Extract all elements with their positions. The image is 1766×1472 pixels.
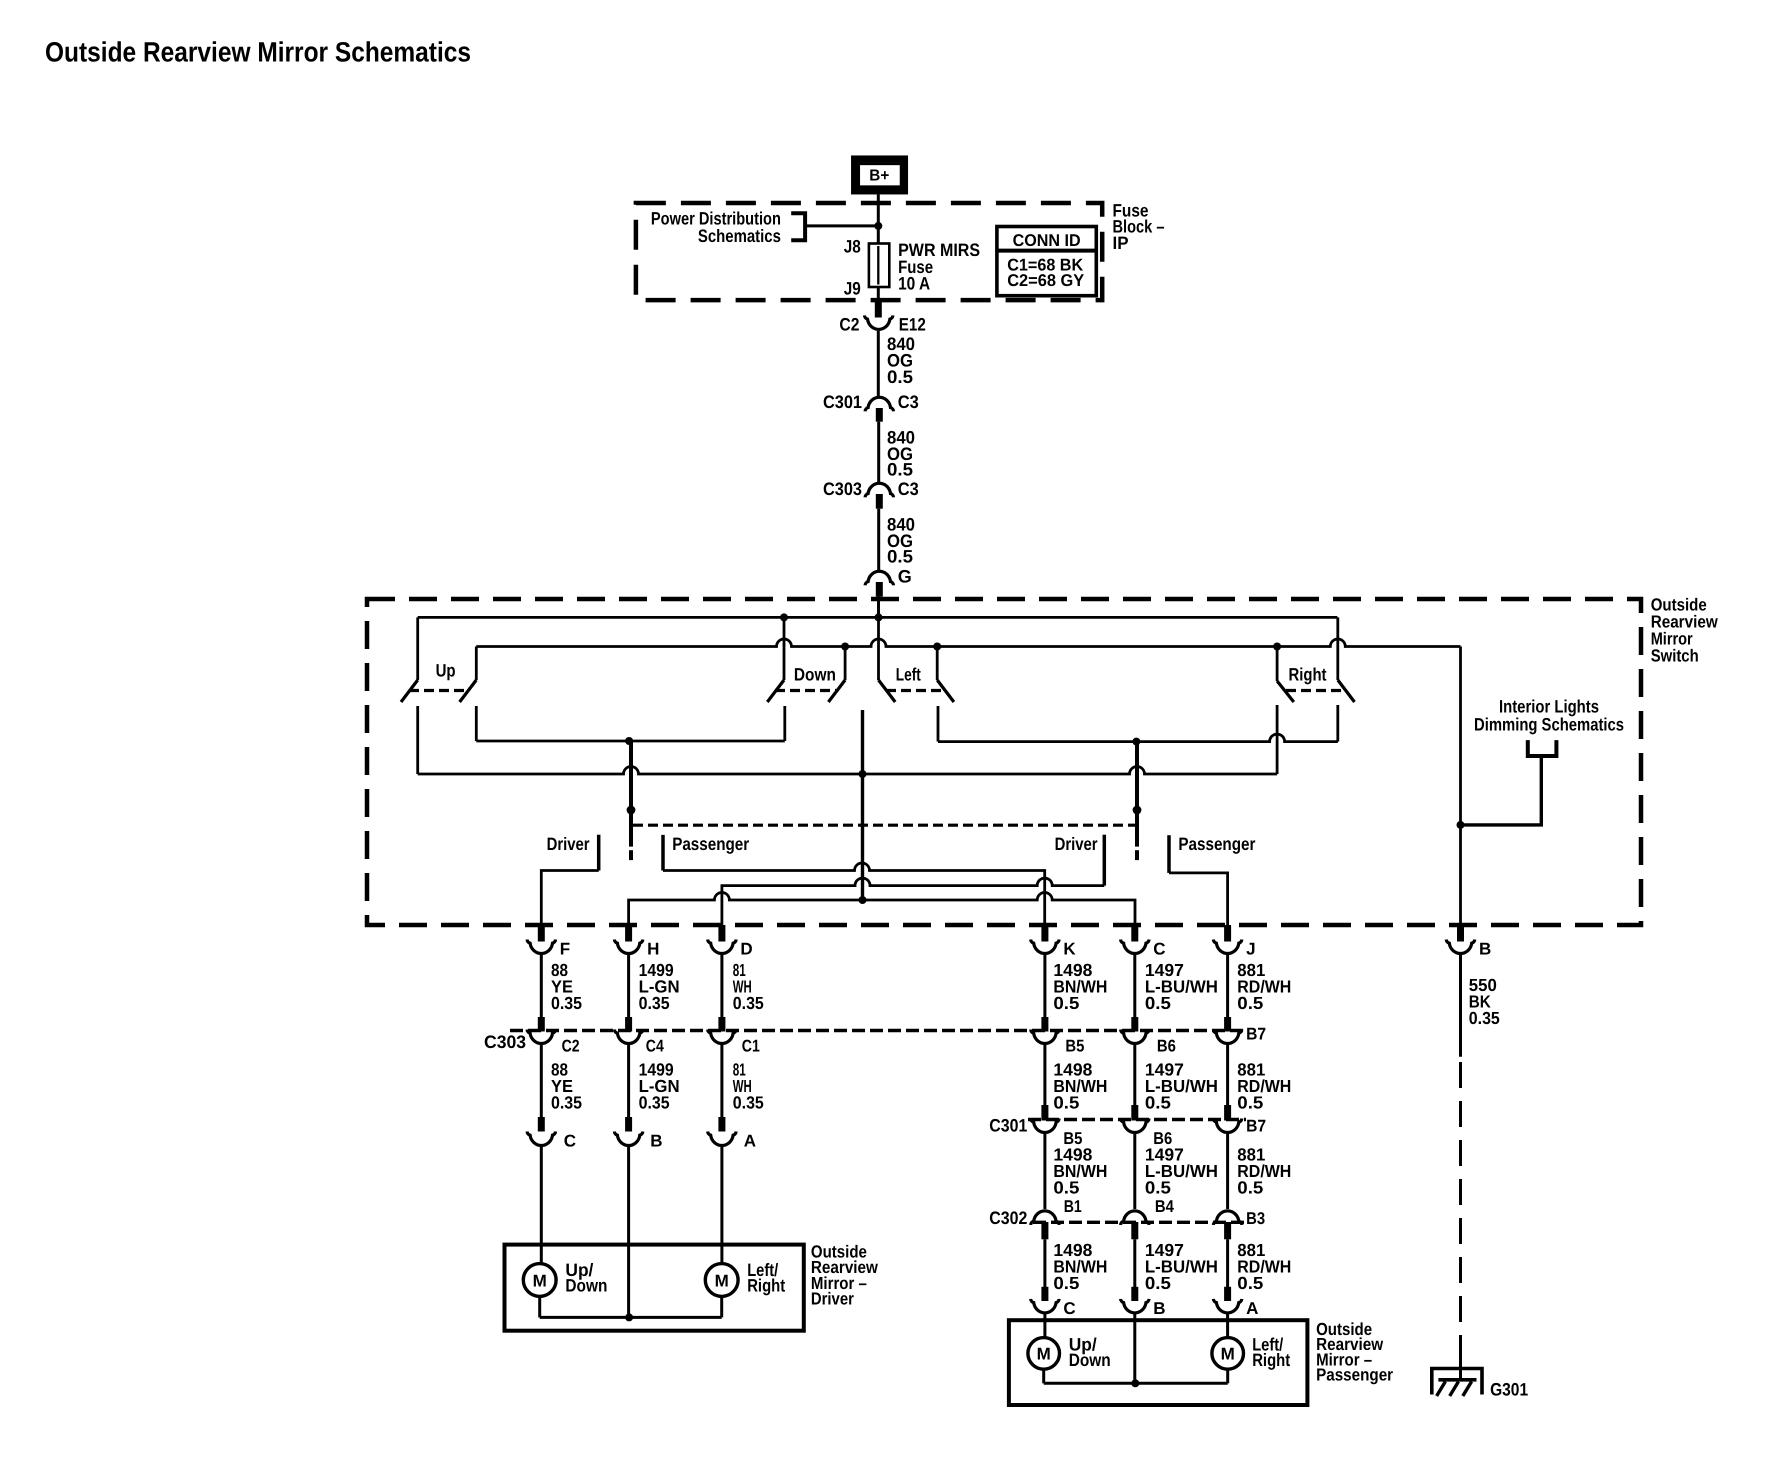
wire C2 to driver mirror C [540,1045,543,1117]
svg-text:0.5: 0.5 [1053,1178,1079,1198]
svg-text:C302: C302 [989,1208,1027,1228]
connector pin K of mirror switch [1031,925,1077,959]
wire B+ to fuse J8 [877,195,880,244]
outside rearview mirror driver box [505,1245,804,1331]
label Passenger (right) with lead to pin J [1169,834,1255,873]
connector pin H of mirror switch [614,925,659,959]
svg-text:G: G [898,567,912,587]
svg-text:0.35: 0.35 [733,993,764,1013]
svg-text:M: M [715,1271,729,1290]
svg-text:H: H [647,940,659,959]
wire label 1498 BN/WH 0.5 [1053,960,1107,1013]
connector pin A of driver mirror [708,1117,756,1151]
wire label 1497 L-BU/WH 0.5 [1145,1060,1218,1113]
wire interior lights tap [1461,756,1542,825]
wire 1497 L-BU/WH segment [1133,955,1136,1017]
wire label 1498 BN/WH 0.5 [1053,1060,1107,1113]
wire label 81 WH 0.35 [733,960,764,1013]
label Outside Rearview Mirror - Passenger [1316,1319,1393,1385]
svg-text:0.35: 0.35 [551,993,582,1013]
svg-text:C303: C303 [823,479,862,499]
svg-text:B: B [1153,1299,1165,1318]
bus Left/Right output (right segment) with hop [938,734,1338,741]
svg-text:C: C [1153,940,1165,959]
switch contact Down (right pole) [828,647,845,703]
svg-text:0.5: 0.5 [1237,1273,1263,1293]
switch contact Right (right pole) [1338,617,1355,741]
bus B (feed to Down, Left, Right and ground wire) with hops [476,639,1460,646]
svg-text:B4: B4 [1155,1197,1174,1216]
svg-text:C3: C3 [898,479,919,499]
outside rearview mirror switch dashed outline [367,599,1641,925]
svg-text:CONN ID: CONN ID [1013,231,1081,250]
wire label 88 YE 0.35 [551,1060,582,1113]
switch contact Right (left pole) [1277,647,1294,775]
svg-text:0.5: 0.5 [1237,1093,1263,1113]
svg-text:B7: B7 [1246,1117,1266,1136]
svg-text:D: D [740,940,752,959]
connector C301 pin B5 [1031,1105,1083,1148]
connector C302 pin B3 [1213,1209,1265,1240]
connector pin C of driver mirror [527,1117,576,1151]
svg-text:0.5: 0.5 [887,460,913,480]
wire B7 to C301 [1226,1045,1229,1105]
connector pin B of mirror switch [1446,925,1491,959]
svg-text:C1: C1 [742,1037,760,1056]
junction node at fuse feed [874,222,882,230]
common tap of Down/Left output [861,710,864,900]
svg-text:0.35: 0.35 [639,993,670,1013]
svg-text:C2=68 GY: C2=68 GY [1007,271,1085,290]
connector pin C of passenger mirror [1031,1287,1076,1318]
power symbol B+ [855,159,905,191]
wire 550 BK segment [1459,955,1462,1057]
CONN ID table [997,227,1096,296]
switch contact Left (left pole, fed from G) [879,617,896,702]
svg-text:0.35: 0.35 [551,1093,582,1113]
ground G301 [1432,1369,1482,1397]
motor M up/down passenger [1028,1338,1060,1370]
svg-text:Right: Right [1252,1350,1290,1370]
wire label 550 BK 0.35 [1469,975,1500,1028]
svg-text:B6: B6 [1157,1037,1176,1056]
label Outside Rearview Mirror Switch [1651,594,1718,665]
label PWR MIRS Fuse 10 A [898,240,980,293]
fuse block IP dashed outline [636,203,1102,300]
svg-text:Driver: Driver [547,834,590,854]
svg-text:M: M [1221,1345,1235,1364]
svg-text:0.5: 0.5 [887,547,913,567]
svg-text:E12: E12 [899,315,926,335]
svg-text:0.5: 0.5 [1145,1273,1171,1293]
label Outside Rearview Mirror - Driver [811,1242,878,1309]
wire passenger A to motor [1226,1314,1229,1338]
connector C303 pin B7 [1213,1017,1266,1044]
svg-text:0.5: 0.5 [1145,993,1171,1013]
mechanical link Left [886,689,946,692]
connector C301 dashed line [1028,1118,1246,1121]
svg-text:C: C [564,1132,576,1151]
connector pin D of mirror switch [708,925,753,959]
wire B5 to C302 B1 [1043,1134,1046,1209]
svg-text:B+: B+ [869,168,889,185]
connector pin A of passenger mirror [1213,1287,1258,1318]
wire label 1497 L-BU/WH 0.5 [1145,1240,1218,1293]
svg-text:Outside Rearview Mirror Schema: Outside Rearview Mirror Schematics [45,37,471,68]
wire 1499 L-GN segment [627,955,630,1017]
svg-text:0.5: 0.5 [1237,993,1263,1013]
wire 81 WH segment [720,955,723,1017]
connector C303 pin C2 [527,1017,580,1056]
wire label 1497 L-BU/WH 0.5 [1145,960,1218,1013]
svg-text:C3: C3 [898,392,919,412]
svg-text:0.5: 0.5 [1053,1273,1079,1293]
mechanical link Right [1286,689,1346,692]
node on ground wire [1457,821,1465,829]
node bus A / Down feed [780,613,788,621]
svg-text:F: F [560,940,570,959]
bus A (feed to Up and Right) [418,616,1338,619]
wire common tap to pins H and C with hops [629,893,1135,928]
wire B4 to passenger mirror B [1133,1239,1136,1287]
wire label 881 RD/WH 0.5 [1237,1240,1291,1293]
svg-text:0.35: 0.35 [639,1093,670,1113]
connector C302 dashed line [1033,1221,1246,1224]
svg-text:A: A [744,1132,756,1151]
wire Driver-right to pin D with hops [722,878,1104,928]
wire B5 to C301 [1043,1045,1046,1105]
svg-text:Down: Down [565,1275,607,1295]
svg-text:0.5: 0.5 [1145,1178,1171,1198]
label Left/Right [1252,1335,1290,1370]
svg-text:B5: B5 [1065,1037,1084,1056]
connector C303 pin C4 [614,1017,664,1056]
svg-text:M: M [533,1271,547,1290]
connector C303 pin B6 [1121,1017,1176,1056]
connector C303 pin C1 [708,1017,760,1056]
connector C301 pin B6 [1121,1105,1173,1148]
label Interior Lights Dimming Schematics with bracket [1474,697,1624,756]
motor M up/down driver [523,1264,556,1297]
label Up/Down [1069,1335,1111,1370]
connector C301 pin B7 [1213,1105,1266,1136]
selector pole (left, up/down circuits) [627,741,636,860]
svg-text:0.5: 0.5 [1053,1093,1079,1113]
mechanical link selector [633,824,1137,827]
wire driver C to motor [540,1147,543,1264]
svg-text:B: B [650,1132,662,1151]
wire label 881 RD/WH 0.5 [1237,960,1291,1013]
motor M left/right passenger [1212,1338,1244,1370]
connector pin G of switch [865,567,912,597]
svg-text:C: C [1063,1299,1075,1318]
connector C302 pin B1 [1031,1197,1082,1239]
svg-text:Switch: Switch [1651,645,1699,665]
wire B1 to passenger mirror C [1043,1239,1046,1287]
motor M left/right driver [705,1264,738,1297]
wire 881 RD/WH segment [1226,955,1229,1017]
svg-text:Schematics: Schematics [698,226,781,246]
wire B6 to C302 B4 [1133,1134,1136,1209]
connector pin B of passenger mirror [1121,1287,1166,1318]
mechanical link Down [775,689,836,692]
svg-text:B7: B7 [1246,1025,1266,1044]
svg-text:K: K [1063,940,1076,959]
wire label 88 YE 0.35 [551,960,582,1013]
wire driver A to motor [720,1147,723,1264]
svg-text:C303: C303 [484,1032,526,1052]
wire C1 to driver mirror A [720,1045,723,1117]
svg-text:C2: C2 [839,315,859,335]
svg-text:C4: C4 [646,1037,664,1056]
connector C2 pin E12 [839,301,925,335]
svg-text:C301: C301 [823,392,862,412]
wire passenger C to motor [1043,1314,1046,1338]
node common tap on H-C wire [859,896,867,904]
wire passenger motor common bus [1044,1369,1228,1383]
connector C303 pin B5 [1031,1017,1085,1056]
wire passenger B to motor common [1133,1314,1136,1383]
wire Passenger-left to pin K with hop [663,863,1045,928]
wire Passenger-right to pin J [1169,873,1228,928]
connector C301 pin C3 [823,392,919,422]
svg-text:A: A [1246,1299,1258,1318]
svg-text:J9: J9 [844,279,861,299]
svg-text:B: B [1479,940,1491,959]
switch contact Left (right pole) [937,647,954,742]
switch contact Up (left pole) [401,617,418,774]
svg-text:0.35: 0.35 [733,1093,764,1113]
connector pin C of mirror switch [1121,925,1166,959]
wire label 1497 L-BU/WH 0.5 [1145,1145,1218,1198]
wire label 881 RD/WH 0.5 [1237,1060,1291,1113]
svg-text:B1: B1 [1064,1197,1082,1216]
outside rearview mirror passenger box [1009,1320,1308,1405]
wire driver B to motor common [627,1147,630,1317]
svg-text:Up: Up [436,661,456,681]
svg-text:Dimming Schematics: Dimming Schematics [1474,714,1624,734]
connector C303 dashed line [510,1029,1246,1032]
wire G into switch [877,597,880,618]
wire label 81 WH 0.35 [733,1060,764,1113]
wire 840 OG 0.5 (E12 to C301) [878,331,915,396]
svg-text:Right: Right [747,1275,785,1295]
svg-text:Passenger: Passenger [672,834,749,854]
fuse PWR MIRS 10 A [869,244,889,302]
bus vertical-motor common with hops [418,767,1277,774]
svg-text:J8: J8 [844,237,861,257]
connector C302 pin B4 [1121,1197,1175,1239]
svg-text:C301: C301 [989,1116,1027,1136]
svg-text:Down: Down [1069,1350,1111,1370]
svg-text:0.5: 0.5 [1053,993,1079,1013]
wire label 881 RD/WH 0.5 [1237,1145,1291,1198]
wire driver motor common bus [540,1296,722,1317]
label Fuse Block - IP [1113,201,1165,253]
node passenger motor common [1131,1379,1139,1387]
svg-text:Right: Right [1289,665,1327,685]
label Driver (left) with lead to pin F [541,834,598,928]
svg-text:Driver: Driver [1055,834,1098,854]
svg-text:10 A: 10 A [898,273,930,293]
svg-text:Passenger: Passenger [1178,834,1255,854]
wire label 1498 BN/WH 0.5 [1053,1240,1107,1293]
label Left/Right [747,1260,785,1295]
wire label 1498 BN/WH 0.5 [1053,1145,1107,1198]
svg-text:G301: G301 [1490,1379,1528,1399]
node driver motor common [625,1313,633,1321]
wire B6 to C301 [1133,1045,1136,1105]
svg-text:M: M [1037,1345,1051,1364]
label Driver (right) with lead to pin D [1055,834,1105,886]
svg-text:0.35: 0.35 [1469,1008,1500,1028]
wire bus B to pin B [1459,647,1462,929]
wire into ground [1459,1340,1462,1380]
svg-text:IP: IP [1113,233,1129,253]
switch contact Down (left pole) [767,617,785,741]
wire 1498 BN/WH segment [1043,955,1046,1017]
svg-text:0.5: 0.5 [1237,1178,1263,1198]
wire 88 YE segment [540,955,543,1017]
wire label 1499 L-GN 0.35 [639,1060,680,1113]
wire label 1499 L-GN 0.35 [639,960,680,1013]
label Up/Down [565,1260,607,1295]
connector pin J of mirror switch [1213,925,1255,959]
connector pin F of mirror switch [527,925,570,959]
svg-text:Left: Left [896,665,921,685]
selector pole (right, left/right circuits) [1133,742,1142,861]
label Power Distribution Schematics with bracket [651,208,805,246]
svg-text:B3: B3 [1246,1209,1265,1228]
svg-text:Driver: Driver [811,1289,854,1309]
wire B3 to passenger mirror A [1226,1239,1229,1287]
svg-text:J: J [1246,940,1255,959]
bus Up/Down output (left segment) [476,740,785,743]
switch contact Up (right pole) [460,647,477,742]
svg-text:Down: Down [794,665,836,685]
wire 840 OG 0.5 (C301 to C303) [879,422,915,483]
svg-text:Passenger: Passenger [1316,1365,1393,1385]
wire power distribution tap [805,224,878,227]
wire B7 to C302 B3 [1226,1134,1229,1209]
svg-text:C2: C2 [562,1037,580,1056]
connector pin B of driver mirror [614,1117,662,1151]
mechanical link Up [409,689,468,692]
svg-text:0.5: 0.5 [887,367,913,387]
node bus A / G feed [875,613,883,621]
connector C303 pin C3 [823,479,919,509]
label Passenger (left) with lead to pin K [663,834,749,871]
wire 840 OG 0.5 (C303 to G) [879,509,915,571]
wire C4 to driver mirror B [627,1045,630,1117]
svg-text:0.5: 0.5 [1145,1093,1171,1113]
wire 550 BK dashed run to ground [1459,1062,1462,1355]
